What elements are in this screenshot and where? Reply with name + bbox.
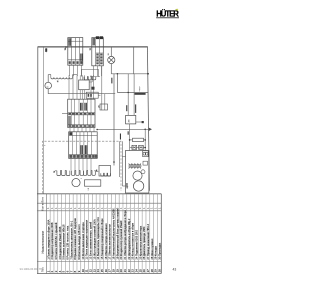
wire y=93.7 from PV [48, 93, 115, 95]
breaker AB box [126, 115, 136, 124]
svg-text:5 Клемма заземления М5х16: 5 Клемма заземления М5х16 [62, 224, 66, 260]
wire vertical x=133.7 [133, 47, 135, 74]
wire AB bottom down [129, 124, 131, 151]
slip ring circle 1 [133, 171, 142, 180]
svg-text:22 Щеткодержатель в сборе КЩ-2: 22 Щеткодержатель в сборе КЩ-2 [127, 218, 131, 259]
transformer windings [129, 163, 141, 165]
parts table [37, 194, 161, 274]
svg-text:12 Блок зажимов внешн. цепей: 12 Блок зажимов внешн. цепей [88, 221, 92, 259]
terminal block K1 [68, 99, 95, 127]
frame top border line [38, 46, 148, 48]
svg-text:V: V [45, 86, 49, 88]
svg-text:Наименование: Наименование [41, 230, 45, 253]
svg-text:3 Розетка 230В/16А с крышкой: 3 Розетка 230В/16А с крышкой [54, 222, 58, 260]
connector strip under AVR [86, 92, 98, 98]
winding W2 top comb [84, 77, 96, 80]
lamp HL1 indicator [108, 47, 115, 74]
svg-text:29 Колодка: 29 Колодка [154, 245, 158, 259]
svg-text:Э1 100А.00.000 ПЗ: Э1 100А.00.000 ПЗ [20, 267, 43, 271]
wire from AB right to bus [136, 121, 142, 123]
svg-text:24 Подшипник 6203 2RS: 24 Подшипник 6203 2RS [134, 230, 138, 260]
wire vertical x=122.4 [121, 141, 123, 186]
svg-text:6 Розетка 12В постоян. тока: 6 Розетка 12В постоян. тока [65, 225, 69, 259]
wires X1 pins down [69, 65, 71, 76]
svg-text:1: 1 [81, 178, 83, 179]
svg-text:43: 43 [173, 267, 177, 271]
wire vertical x=114 [113, 74, 115, 166]
svg-text:13 Жгут проводов основной 100А: 13 Жгут проводов основной 100А [92, 219, 96, 260]
wire main bus y=47 [38, 46, 148, 48]
connector X2 (socket 12V / terminals) [92, 36, 104, 66]
svg-text:27 Провод заземления ПВ3-4: 27 Провод заземления ПВ3-4 [146, 223, 150, 259]
svg-text:19 Выпрямительный блок датчика: 19 Выпрямительный блок датчика напряж. [115, 208, 119, 260]
wire horizontal y=73.8 [111, 73, 148, 75]
frame right border line / right bus wire [147, 47, 149, 191]
wire fan combs to K1 [68, 75, 70, 99]
svg-text:21 Обмотка ротора возбуждения: 21 Обмотка ротора возбуждения в сборе [123, 210, 127, 260]
fuse FU box with circles [130, 147, 146, 149]
svg-text:16 Обмотка статора основная: 16 Обмотка статора основная [104, 223, 108, 260]
AVR regulator box [79, 80, 90, 90]
svg-text:30: 30 [157, 269, 161, 273]
svg-text:НL: НL [108, 53, 110, 55]
svg-text:10 Кнопка включения стартера: 10 Кнопка включения стартера [81, 222, 85, 260]
wire fan K1 to K2 [69, 128, 71, 132]
svg-text:20 Конденсатор пусковой 25мкФ: 20 Конденсатор пусковой 25мкФ [119, 220, 123, 259]
wire loop above AVR [82, 69, 99, 76]
rotor winding circle [72, 179, 80, 187]
svg-text:9 Штепсель вывода 12В пост.: 9 Штепсель вывода 12В пост. [77, 224, 81, 260]
connector X1 (socket group 230V) [68, 38, 83, 66]
aux winding box НВ [85, 180, 101, 186]
svg-text:14 Выключатель термозащиты 10А: 14 Выключатель термозащиты 10А [96, 217, 100, 260]
svg-text:HÜTER: HÜTER [156, 10, 179, 19]
svg-text:11 Плата индикации напряжения: 11 Плата индикации напряжения [85, 219, 89, 259]
wire vertical x=119.3 [118, 141, 120, 177]
wire vertical x=117.4 heater branch [116, 74, 118, 93]
svg-text:4 Конденсатор 25мкФ 450В: 4 Конденсатор 25мкФ 450В [58, 226, 62, 259]
wire fan K2 to stator combs [70, 158, 72, 170]
winding box with comb [99, 166, 111, 177]
svg-text:30 Прокладка: 30 Прокладка [157, 242, 161, 259]
svg-text:26 Двигатель привода 168F: 26 Двигатель привода 168F [142, 226, 146, 260]
svg-text:23 Кольца контактные в сборе: 23 Кольца контактные в сборе [131, 222, 135, 259]
svg-text:д: д [97, 171, 99, 172]
svg-text:7 Выключатель автоматич. ВА-1: 7 Выключатель автоматич. ВА-1 [69, 220, 73, 259]
svg-text:15 Генератор синхронный в сбор: 15 Генератор синхронный в сборе [100, 218, 104, 260]
svg-text:8 Крышка клеммная 12В подогрев: 8 Крышка клеммная 12В подогрев [73, 218, 77, 260]
arrow output bus y=129.3 [97, 128, 149, 130]
slip ring circle 2 [133, 181, 143, 191]
stator winding combs [55, 169, 94, 171]
svg-text:25 Крыльчатка вентилятора: 25 Крыльчатка вентилятора [138, 225, 142, 259]
wires X2 pins down [93, 66, 95, 76]
winding W1 top comb [48, 74, 51, 76]
svg-text:подогр: подогр [139, 86, 141, 91]
brush assembly box [126, 151, 149, 194]
frame left border line [37, 47, 39, 274]
fuse circles box [143, 151, 149, 157]
logo HUTER [156, 9, 179, 19]
wire X2 to plug [101, 66, 103, 104]
wire horizontal y=92.5 heater [117, 92, 148, 94]
terminal block K2 [69, 132, 98, 159]
generator G dashed enclosure [43, 141, 122, 193]
svg-text:1 Панель передняя в сборе 100А: 1 Панель передняя в сборе 100А [46, 219, 50, 259]
node K1 left [62, 113, 68, 115]
svg-text:2 Индикатор напряжения 230В: 2 Индикатор напряжения 230В [50, 222, 54, 259]
table row strips [49, 194, 51, 274]
svg-text:Тип: Тип [40, 197, 44, 202]
node b [65, 47, 66, 48]
heater label [135, 93, 146, 95]
inner vertical bus wire N [43, 47, 45, 194]
svg-text:18 Автоматический выключатель: 18 Автоматический выключатель 4А/230В [111, 209, 115, 260]
voltmeter PV [45, 75, 52, 94]
svg-text:Кол-во: Кол-во [40, 202, 44, 211]
svg-text:28 Шина нулевая: 28 Шина нулевая [150, 238, 154, 259]
svg-text:17 Обмотка вспомогательная: 17 Обмотка вспомогательная [108, 224, 112, 260]
plug X3 two-pin [100, 104, 108, 110]
resistor R box [133, 138, 144, 141]
